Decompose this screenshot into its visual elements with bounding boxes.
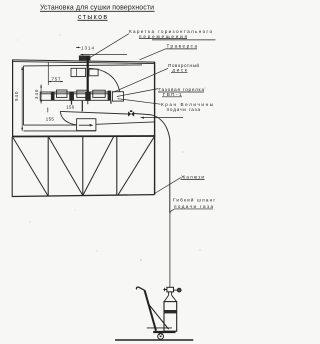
- svg-text:Жалюзи: Жалюзи: [181, 174, 204, 179]
- svg-text:156: 156: [66, 104, 75, 109]
- svg-text:Газовая горелка: Газовая горелка: [159, 87, 205, 92]
- svg-text:Установка для сушки поверхност: Установка для сушки поверхности: [40, 5, 154, 12]
- svg-text:155: 155: [46, 117, 55, 122]
- svg-text:Траверса: Траверса: [167, 44, 198, 49]
- svg-text:757: 757: [52, 76, 62, 81]
- svg-text:ГВП-1: ГВП-1: [163, 92, 182, 97]
- svg-text:Гибкий шланг: Гибкий шланг: [173, 196, 215, 202]
- svg-text:стыков: стыков: [78, 14, 107, 21]
- svg-text:диск: диск: [172, 67, 187, 72]
- svg-text:346: 346: [34, 89, 39, 99]
- svg-text:подачи газа: подачи газа: [167, 107, 201, 112]
- svg-text:1314: 1314: [81, 45, 95, 50]
- svg-text:подачи газа: подачи газа: [174, 204, 213, 209]
- svg-text:перемещения: перемещения: [139, 34, 188, 39]
- svg-text:940: 940: [14, 91, 19, 101]
